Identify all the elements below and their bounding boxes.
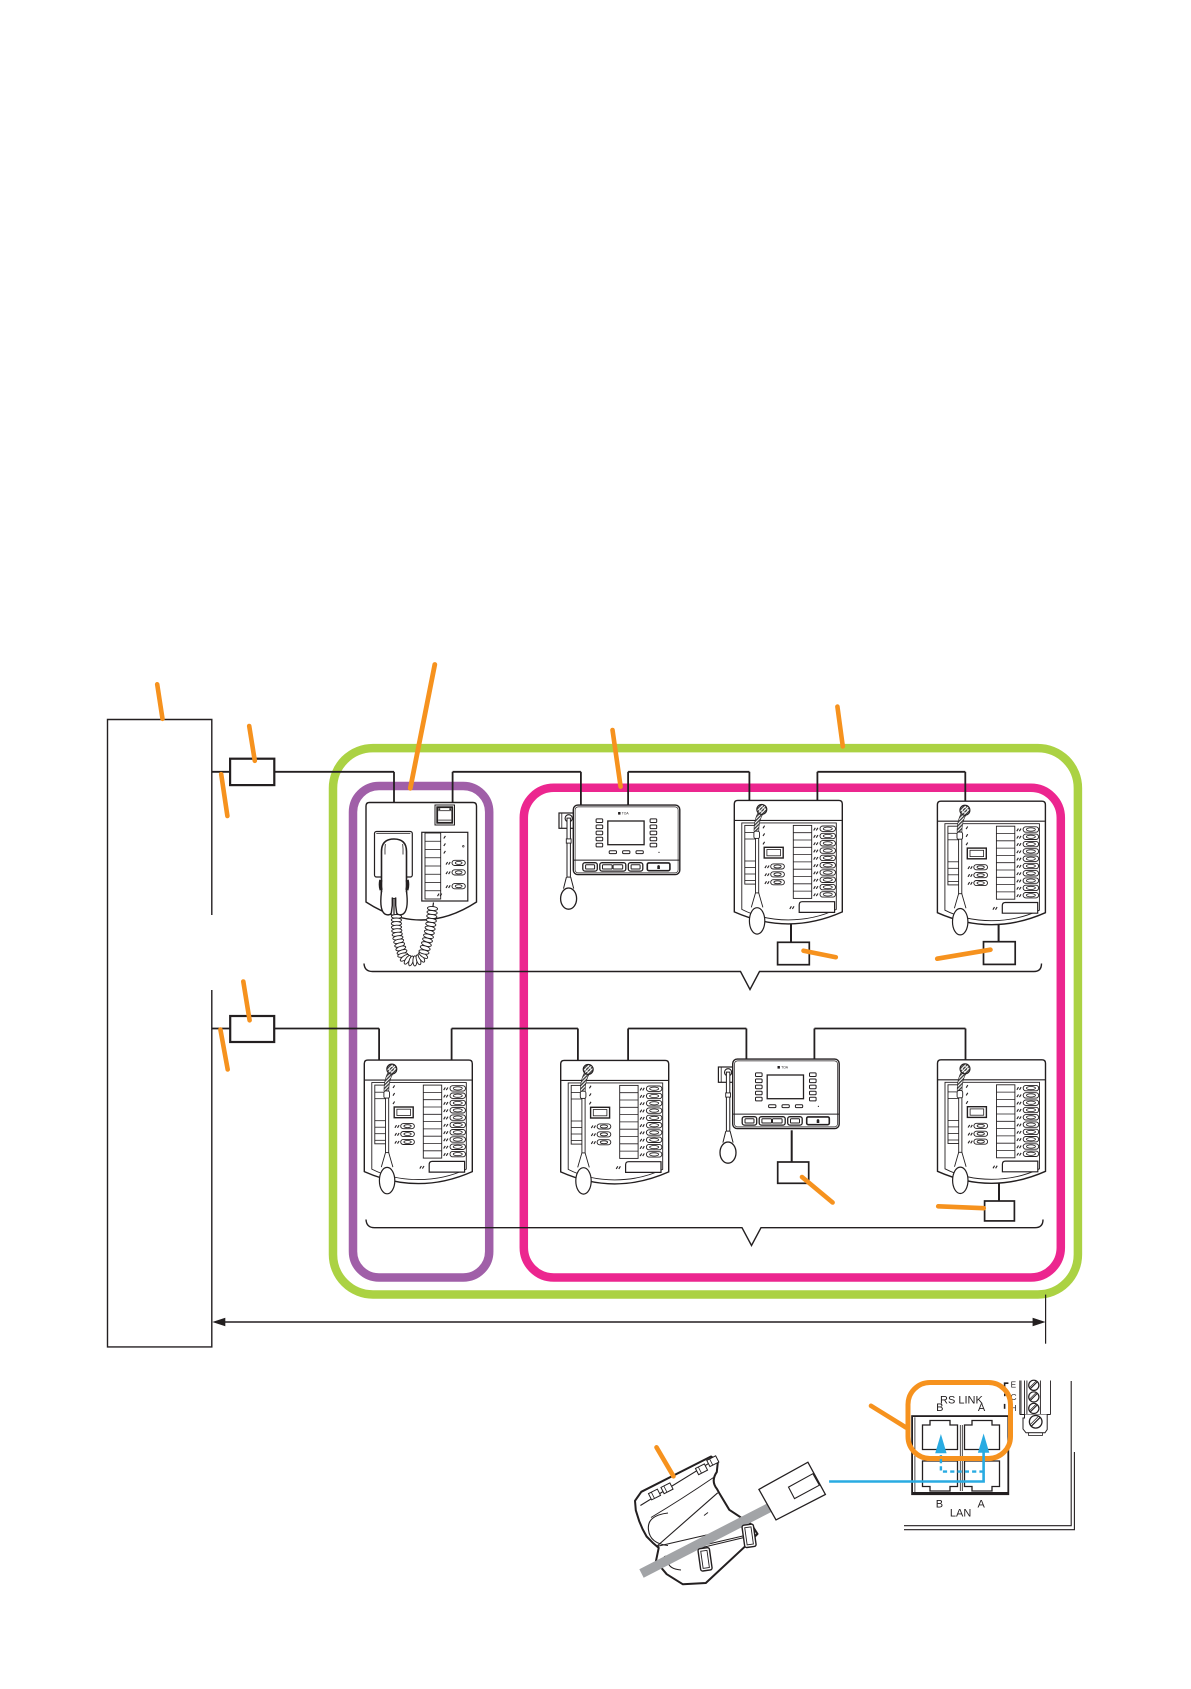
RJ45 jack block (912, 1416, 1008, 1494)
terminal block (1020, 1381, 1051, 1415)
bracket row1 (364, 964, 1042, 990)
callout: box under M1 (804, 951, 836, 958)
console station C1 row1 (559, 805, 680, 909)
console station C2 row2 (718, 1059, 839, 1163)
wire row2 bus (212, 1028, 230, 1030)
group outline purple: stations w/ handset (353, 786, 489, 1278)
callout: green group (837, 707, 842, 747)
svg-text:B: B (936, 1402, 943, 1414)
junction box J2 (230, 1016, 274, 1042)
svg-text:LAN: LAN (950, 1508, 971, 1520)
dimension arrow (224, 1321, 1034, 1323)
junction box under C2 (778, 1162, 809, 1183)
ferrite latch tabs (698, 1547, 713, 1571)
callout: ferrite clamp (657, 1447, 674, 1476)
callout: box under M5 (938, 1206, 984, 1208)
ferrite clamp (635, 1457, 758, 1585)
stub mic2-box (998, 925, 1000, 942)
callout: RS LINK ports (871, 1406, 906, 1428)
E C H labels + bracket (1005, 1383, 1009, 1387)
svg-text:A: A (978, 1402, 986, 1414)
blue cable route line (829, 1453, 984, 1482)
mic station M1 row1 (734, 800, 842, 934)
mic station M5 row2 (938, 1060, 1046, 1194)
junction box under M5 (985, 1201, 1015, 1221)
callout: junction box J2 (243, 982, 249, 1021)
callout: exchange unit (157, 684, 162, 719)
callout: box under C2 (802, 1177, 833, 1203)
callout: link cable row1 (221, 774, 227, 816)
callout: pink group (613, 730, 621, 787)
junction box J1 (230, 759, 274, 785)
blue arrow A (978, 1434, 989, 1453)
orange highlight RS LINK (908, 1383, 1011, 1459)
junction box under M2 (984, 942, 1016, 965)
cable through ferrite (642, 1496, 793, 1574)
wire row1 bus (212, 771, 230, 773)
blue arrow B (935, 1434, 946, 1453)
callout: junction box J1 (249, 726, 255, 761)
bracket row2 (366, 1220, 1043, 1246)
stub mic5-box (998, 1184, 1000, 1202)
group outline pink: stations w/o handset (524, 788, 1061, 1278)
mic station M3 row2 (364, 1060, 472, 1194)
handset station (purple group, row1) (366, 803, 477, 967)
mic station M4 row2 (561, 1060, 669, 1194)
svg-text:E: E (1011, 1381, 1017, 1390)
group outline green: all stations (333, 748, 1078, 1294)
stub mic1-box (790, 924, 792, 943)
blue dashed to B (941, 1455, 984, 1472)
svg-text:A: A (978, 1499, 986, 1511)
wire stubs row1 (393, 772, 395, 803)
mic station M2 row1 (937, 801, 1045, 935)
stub console2-box (791, 1130, 793, 1162)
exchange unit box (108, 720, 212, 1347)
chassis edge lines (904, 1381, 1071, 1526)
callout: box under M2 (937, 950, 990, 959)
svg-text:RS LINK: RS LINK (940, 1394, 983, 1406)
svg-text:B: B (936, 1499, 943, 1511)
junction box under M1 (778, 942, 810, 964)
callout: handset group (purple) (410, 665, 435, 789)
callout: link cable row2 (220, 1030, 227, 1070)
RJ45 plug on cable (759, 1462, 826, 1520)
wire stubs row2 (378, 1029, 380, 1061)
